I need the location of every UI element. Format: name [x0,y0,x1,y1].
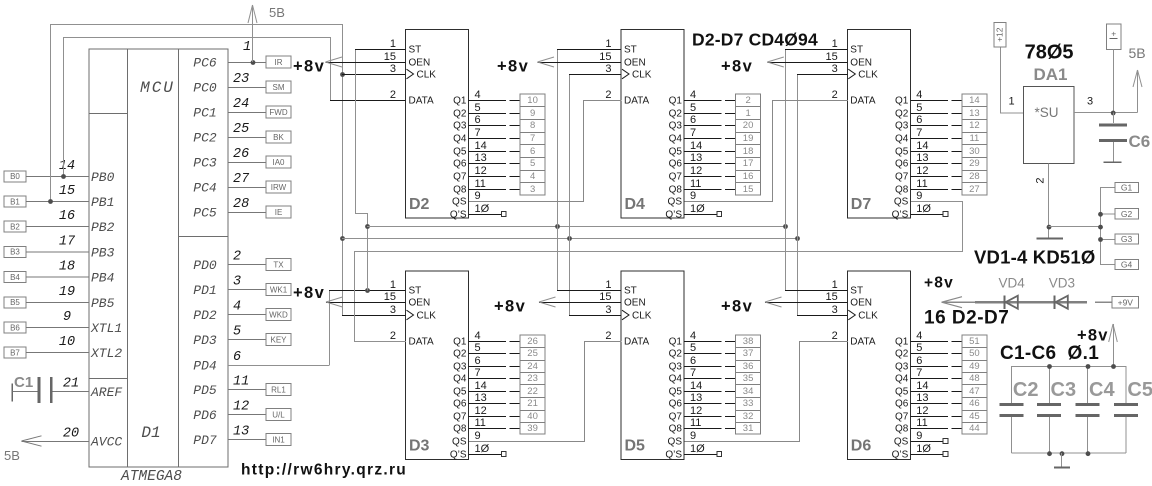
svg-text:1: 1 [605,279,611,291]
pin number 20 [63,427,79,442]
svg-text:D2: D2 [409,196,430,213]
svg-text:11: 11 [690,178,701,190]
svg-text:9: 9 [530,108,535,119]
svg-text:RL1: RL1 [271,386,286,395]
pin number 3 DA1 [1087,96,1093,108]
power arrow 5V left [22,436,42,446]
pin number 2 [233,250,241,265]
svg-text:Q1: Q1 [669,337,683,348]
label C1 [14,374,33,391]
pin number 5 [475,342,481,354]
svg-text:TX: TX [273,261,284,270]
svg-text:7: 7 [690,127,696,139]
wire D3 Q6 pin 13 [469,403,521,405]
pin name PC6 [193,56,217,71]
pin number 21 [63,377,79,392]
svg-text:B6: B6 [10,323,20,332]
svg-text:D4: D4 [625,196,646,213]
label VD4 [999,276,1026,291]
svg-text:1: 1 [832,279,838,291]
svg-text:PD1: PD1 [193,283,216,298]
wire B0 to PB0 [26,175,89,177]
wire D3 QS to D5 DATA [469,342,622,442]
svg-text:2: 2 [605,330,611,342]
svg-text:5В: 5В [269,5,285,20]
connector RL1 [266,384,291,396]
svg-text:Q’S: Q’S [450,210,467,221]
svg-text:9: 9 [690,190,696,202]
wire D4 QS to D7 DATA [685,101,848,202]
svg-text:Q2: Q2 [669,349,683,360]
svg-text:PC6: PC6 [193,56,217,71]
IC D5 CD4094 shift register [599,271,684,461]
wire B7 to XTL2 [26,352,89,354]
svg-text:5: 5 [475,102,481,114]
svg-text:PB0: PB0 [91,170,115,185]
svg-text:Q4: Q4 [669,134,683,145]
wire G1 [1100,187,1115,189]
svg-text:G3: G3 [1121,234,1133,244]
pin number 13 [916,392,928,404]
svg-text:PD2: PD2 [193,308,217,323]
label VD3 [1049,276,1075,291]
svg-text:11: 11 [233,375,249,390]
svg-text:U/L: U/L [272,411,285,420]
svg-text:1Ø: 1Ø [916,203,931,215]
svg-text:ST: ST [624,286,637,297]
svg-text:1: 1 [832,38,838,50]
svg-text:QS: QS [894,197,909,208]
svg-text:13: 13 [969,108,980,119]
wire D5 Q7 pin 12 [684,416,736,418]
pin number 5 [916,342,922,354]
svg-text:Q7: Q7 [895,172,909,183]
pin number 5 [690,342,696,354]
pin number 14 [475,140,487,152]
connector IE [266,206,291,218]
svg-text:13: 13 [475,392,487,404]
svg-text:10: 10 [59,335,75,350]
svg-text:1Ø: 1Ø [475,443,490,455]
wire PD2 [228,314,266,316]
junction G2 [1098,212,1103,217]
label 16 D2-D7 [924,308,1009,329]
wire D7 Q1 pin 4 [910,100,962,102]
svg-text:7: 7 [475,367,481,379]
svg-text:51: 51 [969,336,980,347]
wire PD0 [228,264,266,266]
svg-text:Q’S: Q’S [665,210,682,221]
svg-text:4: 4 [916,330,922,342]
wire regulator pin3 to 5V [1074,112,1138,114]
svg-text:Q1: Q1 [895,337,909,348]
wire D5 Q6 pin 13 [684,403,736,405]
svg-text:6: 6 [916,355,922,367]
svg-text:4: 4 [475,330,481,342]
svg-text:+12: +12 [994,27,1004,42]
wire D4 Q8 pin 11 [684,189,736,191]
wire G column riser [1100,188,1102,265]
svg-text:C3: C3 [1051,379,1077,401]
pin number 5 [233,325,241,340]
svg-text:ST: ST [850,45,863,56]
svg-text:Q1: Q1 [669,96,683,107]
svg-text:CLK: CLK [632,70,652,81]
svg-text:IN1: IN1 [272,436,285,445]
label +8v D5 [494,298,526,316]
svg-text:Q3: Q3 [669,362,683,373]
wire D2 Q6 pin 13 [469,163,521,165]
svg-text:C5: C5 [1127,379,1152,401]
svg-text:FWD: FWD [269,108,287,117]
wire D4 Q2 pin 5 [684,113,736,115]
svg-text:19: 19 [743,133,754,144]
connector B7 [4,347,26,358]
pin number 26 [233,147,249,162]
pin name PD7 [193,433,217,448]
svg-text:MCU: MCU [140,79,175,97]
pin number 4 [475,330,481,342]
svg-text:Q4: Q4 [453,374,467,385]
wire PC6 to 5V arrow [252,5,254,62]
svg-text:Q3: Q3 [453,362,467,373]
svg-text:PD6: PD6 [193,408,217,423]
pin number 4 [916,89,922,101]
svg-text:3: 3 [1087,96,1093,108]
svg-text:VD1-4 KD51Ø: VD1-4 KD51Ø [974,247,1095,268]
svg-text:OEN: OEN [409,298,431,309]
wire PC2 [228,137,266,139]
power arrow 5V top [248,5,257,23]
capacitor C5 [1114,366,1138,453]
wire D6 Q7 pin 12 [910,416,962,418]
label +8v caps [1077,327,1109,345]
svg-text:25: 25 [527,348,538,359]
svg-text:45: 45 [969,411,980,422]
svg-text:9: 9 [475,190,481,202]
svg-text:1: 1 [605,38,611,50]
svg-text:15: 15 [384,291,396,303]
svg-text:+8v: +8v [924,275,954,292]
svg-text:25: 25 [233,122,249,137]
svg-text:9: 9 [916,190,922,202]
svg-text:6: 6 [475,114,481,126]
svg-text:4: 4 [475,89,481,101]
svg-text:XTL1: XTL1 [90,321,122,336]
pin number 12 [475,405,487,417]
svg-text:Q2: Q2 [895,109,909,120]
wire D4 Q3 pin 6 [684,125,736,127]
svg-text:http://rw6hry.qrz.ru: http://rw6hry.qrz.ru [241,462,407,479]
pin number 6 [690,355,696,367]
svg-text:3: 3 [390,63,396,75]
svg-text:VD3: VD3 [1049,276,1075,291]
wire D2 QS-prime [469,214,502,216]
pin name PB0 [91,170,115,185]
svg-text:B1: B1 [10,197,20,206]
junction cap bottom C4 [1086,451,1091,456]
svg-text:29: 29 [969,158,980,169]
svg-text:5В: 5В [1129,45,1146,61]
svg-text:OEN: OEN [624,58,646,69]
svg-text:Q5: Q5 [453,147,467,158]
svg-text:38: 38 [743,336,754,347]
label 5V right [1129,45,1146,61]
svg-text:13: 13 [233,425,249,440]
svg-text:QS: QS [668,197,683,208]
svg-text:11: 11 [475,417,486,429]
wire strobe riser D5 [557,226,621,291]
svg-text:24: 24 [527,361,538,372]
svg-text:27: 27 [233,172,250,187]
svg-text:+8v: +8v [497,58,529,76]
svg-text:7: 7 [475,127,481,139]
wire D3 Q4 pin 7 [469,378,521,380]
svg-text:6: 6 [475,355,481,367]
pin number 10 [475,443,490,455]
svg-text:Q8: Q8 [669,185,683,196]
wire D6 Q6 pin 13 [910,403,962,405]
label +8v D6 [721,298,753,316]
wire clock distribution [342,238,797,240]
svg-text:5: 5 [233,325,241,340]
svg-text:PC5: PC5 [193,206,217,221]
svg-text:+8v: +8v [721,58,753,76]
svg-text:19: 19 [59,285,75,300]
pin name PD0 [193,258,217,273]
svg-text:IE: IE [275,208,283,217]
junction clock D7 D6 [795,236,800,241]
junction clock bus split [340,236,345,241]
svg-text:1Ø: 1Ø [916,443,931,455]
pin number 10 [59,335,75,350]
svg-text:G1: G1 [1121,183,1133,193]
svg-text:Q5: Q5 [895,387,909,398]
svg-text:Q2: Q2 [669,109,683,120]
svg-text:48: 48 [969,373,980,384]
svg-text:QS: QS [452,437,467,448]
wire D2 Q8 pin 11 [469,189,521,191]
svg-text:31: 31 [743,423,754,434]
svg-text:49: 49 [969,361,980,372]
svg-text:36: 36 [743,361,754,372]
capacitor C6 [1099,113,1127,163]
terminal D4 QS-prime [717,212,722,217]
IC D4 CD4094 shift register [599,30,684,221]
svg-text:5: 5 [690,342,696,354]
junction cap bottom ground [1060,451,1065,456]
svg-text:+8v: +8v [1077,327,1109,345]
svg-text:ST: ST [850,286,863,297]
svg-text:13: 13 [690,392,702,404]
svg-text:4: 4 [690,330,696,342]
svg-text:PC3: PC3 [193,156,217,171]
svg-text:20: 20 [743,120,754,131]
pin number 9 [916,190,922,202]
pin number 6 [916,114,922,126]
svg-text:13: 13 [690,152,702,164]
pin number 1 DA1 [1008,96,1014,108]
terminal D2 QS-prime [501,212,506,217]
pin name AREF [90,385,122,400]
svg-text:Q8: Q8 [669,424,683,435]
connector U/L [266,409,291,421]
svg-text:13: 13 [475,152,487,164]
connector column D4 outputs [736,94,761,195]
svg-text:15: 15 [826,291,838,303]
ground DA1 [1037,237,1063,239]
wire B4 to PB4 [26,276,89,278]
wire clock riser D7 [797,74,847,238]
svg-text:DATA: DATA [624,337,650,348]
svg-text:Q5: Q5 [453,387,467,398]
wire D5 Q8 pin 11 [684,428,736,430]
svg-text:4: 4 [690,89,696,101]
svg-text:2: 2 [832,89,838,101]
pin number 7 [916,127,922,139]
capacitor C4 [1076,366,1100,453]
svg-text:28: 28 [233,197,249,212]
svg-text:16 D2-D7: 16 D2-D7 [924,308,1009,329]
svg-text:D3: D3 [409,437,430,454]
svg-text:11: 11 [916,178,927,190]
svg-text:Q’S: Q’S [892,210,909,221]
wire AVCC to 5V arrow [22,441,90,443]
connector IN1 [266,434,291,446]
svg-text:9: 9 [63,310,71,325]
connector column D7 outputs [962,94,987,195]
pin number 13 [916,152,928,164]
pin number 10 [916,443,931,455]
IC D2 CD4094 shift register [384,30,469,221]
pin number 23 [233,72,249,87]
junction PC6 [251,60,256,65]
label C4 [1089,379,1115,401]
svg-text:23: 23 [527,373,538,384]
svg-text:21: 21 [63,377,79,392]
IC D6 CD4094 shift register [826,271,911,461]
svg-text:1: 1 [390,279,396,291]
svg-text:5: 5 [530,158,535,169]
wire D4 Q1 pin 4 [684,100,736,102]
svg-text:46: 46 [969,398,980,409]
connector SM [266,81,291,93]
connector battery plus [1106,24,1121,50]
pin name PC0 [193,81,217,96]
svg-text:12: 12 [475,165,487,177]
pin name PD4 [193,359,217,374]
pin number 11 [916,178,927,190]
wire D6 Q5 pin 14 [910,391,962,393]
pin number 7 [475,367,481,379]
connector G3 [1115,234,1139,244]
svg-text:9: 9 [916,430,922,442]
junction G3 [1098,237,1103,242]
svg-text:7: 7 [916,367,922,379]
pin name PD2 [193,308,217,323]
svg-text:2: 2 [233,250,241,265]
svg-text:28: 28 [969,171,980,182]
capacitor C1 [12,377,89,403]
wire D3 OEN [326,302,406,304]
svg-text:Q8: Q8 [453,424,467,435]
connector B1 [4,196,26,207]
pin number 4 [475,89,481,101]
svg-text:5: 5 [690,102,696,114]
svg-text:B3: B3 [10,248,20,257]
svg-text:+9V: +9V [1118,297,1134,307]
pin number 15 [59,184,75,199]
connector +9V [1112,297,1138,309]
pin number 6 [233,350,241,365]
wire B5 to PB5 [26,301,89,303]
wire D3 QS-prime [469,454,502,456]
svg-text:7: 7 [690,367,696,379]
svg-text:Q5: Q5 [895,147,909,158]
svg-text:Q7: Q7 [669,412,683,423]
wire D2 QS to D4 DATA [469,101,622,202]
wire diode line [942,301,1113,303]
svg-text:1: 1 [390,38,396,50]
wire D2 Q2 pin 5 [469,113,521,115]
wire D3 Q7 pin 12 [469,416,521,418]
svg-text:PB5: PB5 [91,296,115,311]
svg-text:21: 21 [527,398,538,409]
svg-text:34: 34 [743,386,754,397]
wire D3 Q3 pin 6 [469,366,521,368]
svg-text:PD0: PD0 [193,258,217,273]
svg-text:ATMEGA8: ATMEGA8 [120,469,182,485]
svg-text:OEN: OEN [409,58,431,69]
pin name PC1 [193,106,216,121]
wire D5 QS-prime [684,454,717,456]
label D2-D7 CD4094 [692,30,818,50]
svg-text:2: 2 [1035,177,1047,183]
svg-text:11: 11 [690,417,701,429]
svg-text:PB2: PB2 [91,220,115,235]
wire D7 Q6 pin 13 [910,163,962,165]
svg-text:5В: 5В [4,448,20,463]
wire PD3 [228,339,266,341]
svg-text:C1: C1 [14,374,33,391]
wire B3 to PB3 [26,251,89,253]
pin number 4 [233,300,241,315]
wire D2 Q7 pin 12 [469,176,521,178]
svg-text:Q7: Q7 [453,412,467,423]
svg-text:2: 2 [390,89,396,101]
svg-text:CLK: CLK [632,311,652,322]
wire D7 Q8 pin 11 [910,189,962,191]
svg-text:4: 4 [233,300,241,315]
svg-text:1Ø: 1Ø [475,203,490,215]
svg-text:Q4: Q4 [453,134,467,145]
wire D7 QS to D3 DATA [355,202,963,342]
svg-text:15: 15 [384,51,396,63]
pin number 24 [233,97,249,112]
pin number 11 [690,417,701,429]
power arrow +8v diode [942,297,962,308]
svg-text:Q4: Q4 [669,374,683,385]
svg-text:27: 27 [969,184,980,195]
wire D7 Q4 pin 7 [910,138,962,140]
terminal D6 QS [943,439,948,444]
wire D6 Q3 pin 6 [910,366,962,368]
wire D3 Q2 pin 5 [469,353,521,355]
wire cap bank bottom bus [1011,452,1126,454]
svg-text:Q6: Q6 [453,399,467,410]
IC DA1 7805 regulator [1024,87,1074,164]
pin number 7 [475,127,481,139]
